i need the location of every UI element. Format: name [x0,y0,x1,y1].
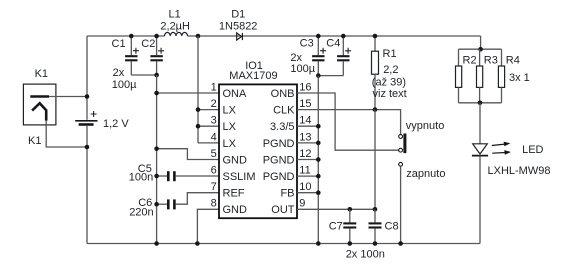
svg-text:1,2 V: 1,2 V [103,118,129,130]
svg-text:16: 16 [299,81,311,93]
svg-text:K1: K1 [28,135,41,147]
wire pin 15 CLK to switch [297,110,401,135]
svg-text:R2: R2 [463,54,477,66]
wire pin 2 LX stub [198,109,219,111]
svg-text:2x 100n: 2x 100n [346,249,385,261]
wire top rail left segment (battery + to L1) [87,35,165,37]
svg-text:R1: R1 [383,48,397,60]
node junction pin 8 ground at bottom rail [195,241,200,246]
wire pin 1 ONA to ground rail [157,92,219,94]
capacitor C8 [369,209,382,243]
svg-text:C1: C1 [112,38,126,50]
wire pin 11 stub [297,175,318,177]
svg-text:LX: LX [223,121,237,133]
wire K1 minus to left rail [46,121,87,147]
svg-text:7: 7 [211,181,217,193]
node junction R1 top [373,34,378,39]
wire zapnuto contact to bottom rail [400,166,402,243]
svg-text:L1: L1 [169,9,181,21]
svg-text:REF: REF [223,188,245,200]
node junction C3 bottom [316,73,321,78]
svg-text:13: 13 [299,131,311,143]
switch S1 contact zapnuto [399,162,403,166]
svg-text:1N5822: 1N5822 [219,21,258,33]
svg-text:15: 15 [299,98,311,110]
node junction C6 ground [154,202,159,207]
wire LX bus vertical [197,36,199,143]
wire pin 4 LX stub [198,142,219,144]
wire K1 plus to left rail [49,96,87,98]
resistor R3 [477,49,483,103]
svg-text:viz text: viz text [373,88,407,100]
capacitor C2 [150,36,164,75]
node junction ONA ground [154,91,159,96]
connector K1 [23,84,56,125]
svg-text:C4: C4 [326,38,340,50]
node junction OUT C8 [373,207,378,212]
svg-text:C7: C7 [329,221,343,233]
wire pin 5 GND jog to ground rail [157,149,219,160]
svg-text:FB: FB [280,188,294,200]
svg-text:C2: C2 [141,38,155,50]
switch S1 contact vypnuto bottom [399,148,403,152]
node junction C7 ground [348,241,353,246]
svg-text:2,2: 2,2 [383,64,398,76]
wire R bus to LED anode [479,103,481,144]
svg-text:C3: C3 [300,38,314,50]
node junction K1 plus [85,94,90,99]
node junction L1 output [196,34,201,39]
wire pin 3 LX stub [198,125,219,127]
resistor R1 [372,36,379,110]
wire left rail lower (battery to bottom rail) [86,126,88,244]
svg-text:LX: LX [223,138,237,150]
svg-text:ONA: ONA [223,88,248,100]
svg-text:220n: 220n [129,207,153,219]
resistor R2 [456,49,462,103]
op-amp IC IO1 MAX1709 body [219,84,297,218]
svg-text:zapnuto: zapnuto [406,168,445,180]
wire left rail upper (top rail to battery) [86,36,88,120]
svg-text:GND: GND [223,154,248,166]
node junction switch ground [398,241,403,246]
resistor R4 [498,49,504,103]
svg-text:3: 3 [211,115,217,127]
node junction LX bus pin 2 [196,107,201,112]
svg-text:1: 1 [211,81,217,93]
wire CLK node down to OUT line [374,110,376,210]
capacitor C4 [337,36,351,76]
svg-text:LX: LX [223,105,237,117]
svg-text:(až 39): (až 39) [372,77,406,89]
wire bottom rail [87,243,480,245]
svg-text:MAX1709: MAX1709 [229,70,277,82]
svg-text:C8: C8 [385,221,399,233]
capacitor C5 [157,171,219,181]
wire top rail drop to R2 R3 R4 [480,36,482,49]
node junction pin 10 [316,190,321,195]
switch S1 contact vypnuto top [399,135,403,139]
wire pin 9 OUT line [297,208,375,210]
svg-text:2: 2 [211,98,217,110]
node junction pin 11 [316,174,321,179]
node junction OUT C7 [348,207,353,212]
svg-text:3.3/5: 3.3/5 [270,121,294,133]
svg-text:OUT: OUT [271,204,295,216]
LED light arrow upper [492,142,511,147]
wire C1 C2 bottom bus [131,74,156,76]
wire LED cathode to bottom rail [479,156,481,244]
svg-text:100µ: 100µ [290,63,315,75]
wire PGND bus vertical [317,76,319,244]
wire R2 R3 R4 top bus [459,48,502,50]
svg-text:D1: D1 [231,9,245,21]
LED D2 LXHL-MW98 [472,144,488,156]
wire pin 13 stub [297,142,318,144]
svg-text:vypnuto: vypnuto [406,120,445,132]
node junction pin 5 ground [154,146,159,151]
node junction C2 bottom [154,73,159,78]
node junction PGND bus at bottom rail [316,241,321,246]
node junction LX bus pin 3 [196,124,201,129]
wire C3 C4 bottom bus [318,75,343,77]
svg-text:PGND: PGND [263,171,295,183]
svg-text:6: 6 [211,165,217,177]
wire analog ground rail (C2 bottom to bottom rail) [156,75,158,244]
svg-text:100µ: 100µ [112,79,137,91]
node junction C2 top [154,34,159,39]
svg-text:100n: 100n [129,172,153,184]
node junction pin 14 [316,124,321,129]
svg-text:K1: K1 [35,68,48,80]
wire R2 R3 R4 bottom bus [459,102,502,104]
wire pin 8 GND to bottom rail [197,209,219,243]
svg-text:12: 12 [299,148,311,160]
wire top rail middle segment (L1 to D1) [188,35,481,37]
svg-text:PGND: PGND [263,154,295,166]
node junction C8 ground [373,241,378,246]
node junction C4 top [341,34,346,39]
svg-text:CLK: CLK [273,105,295,117]
node junction R1 bottom CLK [373,107,378,112]
svg-text:LXHL-MW98: LXHL-MW98 [488,165,551,177]
LED light arrow lower [492,150,511,155]
svg-text:R3: R3 [484,54,498,66]
inductor L1 [165,32,188,36]
svg-text:8: 8 [211,198,217,210]
svg-text:ONB: ONB [271,88,295,100]
node junction C1 top [129,34,134,39]
svg-text:R4: R4 [506,54,520,66]
svg-text:SSLIM: SSLIM [223,171,256,183]
node junction C5 ground [154,174,159,179]
capacitor C7 [343,209,356,243]
svg-text:4: 4 [211,131,217,143]
wire pin 16 ONB to switch [297,93,399,150]
capacitor C3 [312,36,326,76]
capacitor C6 [157,193,219,210]
diode D1 [237,33,243,40]
svg-text:GND: GND [223,204,248,216]
svg-text:PGND: PGND [263,138,295,150]
battery B1 1,2 V [75,111,97,125]
wire pin 10 FB stub [297,192,318,194]
node junction R bus top [478,47,483,52]
node junction ground rail at bottom rail [154,241,159,246]
node junction pin 13 [316,141,321,146]
wire pin 14 stub [297,125,318,127]
switch S1 actuator bar [403,134,406,154]
node junction C3 top [316,34,321,39]
capacitor C1 [125,36,139,75]
svg-text:5: 5 [211,148,217,160]
svg-text:LED: LED [522,144,543,156]
svg-text:10: 10 [299,181,311,193]
svg-text:9: 9 [299,198,305,210]
wire pin 12 stub [297,159,318,161]
node junction K1 minus [85,145,90,150]
svg-text:2x: 2x [113,67,125,79]
svg-text:3x 1: 3x 1 [509,72,530,84]
svg-text:2,2µH: 2,2µH [160,21,190,33]
node junction R bus bottom [478,101,483,106]
svg-text:14: 14 [299,115,311,127]
svg-text:11: 11 [299,165,310,177]
node junction pin 12 [316,157,321,162]
